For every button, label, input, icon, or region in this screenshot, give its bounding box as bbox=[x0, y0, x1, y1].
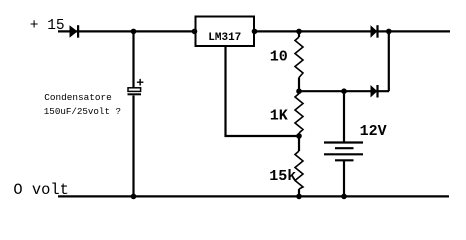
svg-text:15k: 15k bbox=[269, 168, 296, 185]
svg-text:150uF/25volt ?: 150uF/25volt ? bbox=[44, 106, 121, 117]
svg-text:1K: 1K bbox=[270, 107, 288, 124]
svg-text:+: + bbox=[136, 76, 144, 91]
svg-text:LM317: LM317 bbox=[208, 32, 241, 44]
svg-text:O volt: O volt bbox=[13, 181, 68, 199]
svg-text:10: 10 bbox=[270, 48, 288, 65]
svg-text:+ 15: + 15 bbox=[30, 18, 65, 34]
svg-text:12V: 12V bbox=[360, 123, 387, 140]
svg-text:Condensatore: Condensatore bbox=[44, 92, 112, 103]
